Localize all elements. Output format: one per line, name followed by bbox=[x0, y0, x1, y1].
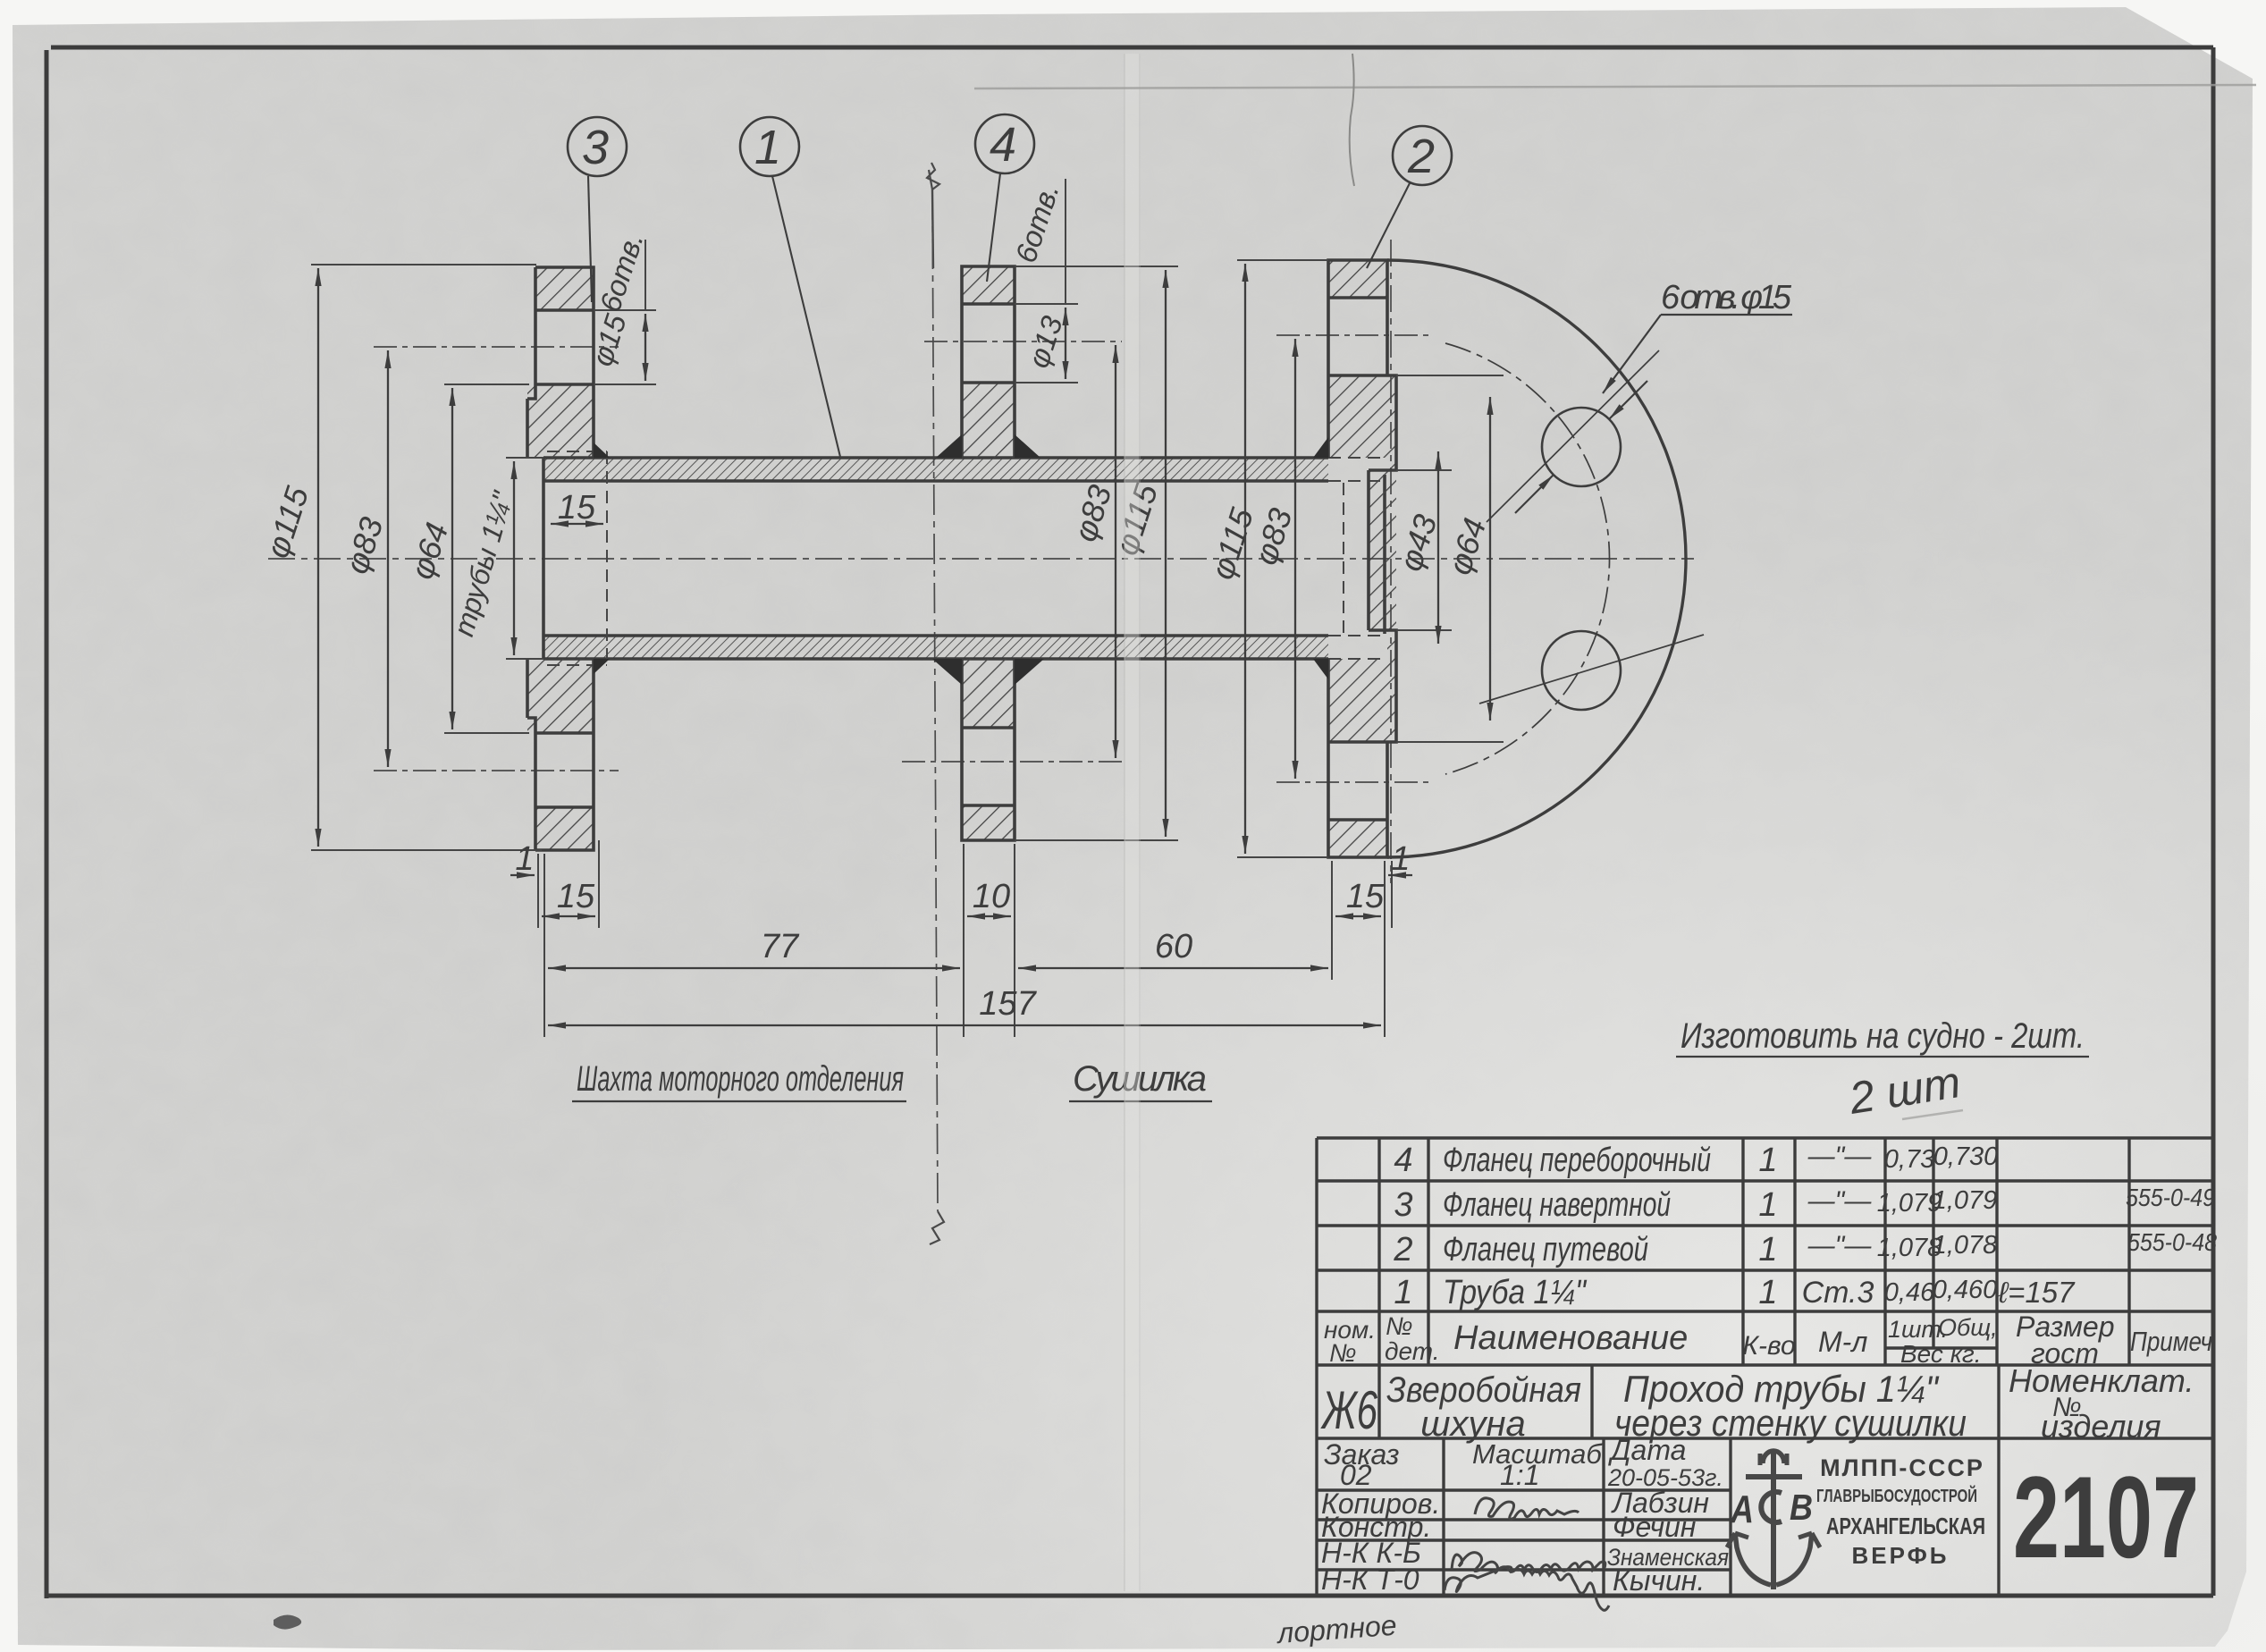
svg-text:1: 1 bbox=[515, 840, 534, 878]
svg-text:3: 3 bbox=[582, 121, 609, 174]
svg-text:6 отв. φ15: 6 отв. φ15 bbox=[1661, 279, 1792, 316]
svg-text:дет.: дет. bbox=[1385, 1337, 1440, 1365]
svg-text:изделия: изделия bbox=[2041, 1408, 2161, 1445]
svg-text:1,079: 1,079 bbox=[1933, 1186, 1998, 1215]
svg-text:—"—: —"— bbox=[1807, 1186, 1873, 1216]
svg-text:К-во: К-во bbox=[1742, 1331, 1795, 1361]
svg-text:Н-К Т-0: Н-К Т-0 bbox=[1321, 1563, 1419, 1596]
svg-text:Наименование: Наименование bbox=[1453, 1319, 1688, 1357]
svg-text:Вес кг.: Вес кг. bbox=[1900, 1340, 1982, 1368]
svg-text:Дата: Дата bbox=[1608, 1434, 1686, 1466]
svg-text:—"—: —"— bbox=[1807, 1142, 1873, 1171]
svg-text:0,73: 0,73 bbox=[1884, 1145, 1934, 1174]
svg-text:1: 1 bbox=[1758, 1274, 1777, 1311]
svg-text:1: 1 bbox=[1758, 1142, 1777, 1179]
svg-text:3: 3 bbox=[1394, 1186, 1412, 1224]
svg-text:Фланец навертной: Фланец навертной bbox=[1443, 1186, 1671, 1224]
svg-text:АРХАНГЕЛЬСКАЯ: АРХАНГЕЛЬСКАЯ bbox=[1826, 1513, 1985, 1539]
svg-text:ℓ=157: ℓ=157 bbox=[1998, 1276, 2076, 1309]
svg-text:4: 4 bbox=[990, 118, 1016, 172]
svg-text:Шахта моторного отделения: Шахта моторного отделения bbox=[577, 1059, 904, 1099]
svg-text:Ж6: Ж6 bbox=[1320, 1380, 1378, 1440]
svg-text:1: 1 bbox=[1391, 840, 1410, 878]
svg-text:157: 157 bbox=[979, 985, 1037, 1023]
svg-text:1: 1 bbox=[1758, 1186, 1777, 1224]
svg-text:Фланец переборочный: Фланец переборочный bbox=[1443, 1142, 1711, 1179]
svg-text:0,730: 0,730 bbox=[1933, 1142, 1999, 1171]
svg-text:Ст.3: Ст.3 bbox=[1802, 1276, 1874, 1310]
svg-text:Труба 1¼": Труба 1¼" bbox=[1443, 1274, 1587, 1311]
svg-text:Номенклат.: Номенклат. bbox=[2009, 1362, 2194, 1399]
svg-text:ВЕРФЬ: ВЕРФЬ bbox=[1852, 1542, 1950, 1569]
svg-text:А: А bbox=[1730, 1488, 1754, 1531]
svg-text:Примеч: Примеч bbox=[2130, 1326, 2212, 1357]
svg-text:Фланец путевой: Фланец путевой bbox=[1443, 1231, 1648, 1268]
svg-text:1: 1 bbox=[754, 121, 781, 174]
svg-text:77: 77 bbox=[761, 928, 800, 965]
svg-text:Изготовить на судно - 2шт.: Изготовить на судно - 2шт. bbox=[1681, 1016, 2085, 1056]
svg-text:555-0-48: 555-0-48 bbox=[2127, 1228, 2217, 1256]
svg-text:1:1: 1:1 bbox=[1500, 1459, 1539, 1491]
svg-text:0,46: 0,46 bbox=[1884, 1278, 1935, 1307]
svg-text:2: 2 bbox=[1393, 1231, 1412, 1268]
svg-text:№: № bbox=[1386, 1312, 1412, 1340]
svg-text:1,078: 1,078 bbox=[1933, 1231, 1998, 1260]
svg-text:4: 4 bbox=[1394, 1142, 1412, 1179]
svg-text:Общ,: Общ, bbox=[1938, 1314, 1998, 1341]
svg-text:02: 02 bbox=[1340, 1459, 1372, 1491]
svg-text:2107: 2107 bbox=[2013, 1452, 2199, 1582]
svg-text:1: 1 bbox=[1758, 1231, 1777, 1268]
svg-text:В: В bbox=[1790, 1487, 1813, 1528]
svg-text:М-л: М-л bbox=[1818, 1326, 1867, 1358]
svg-text:Кычин.: Кычин. bbox=[1613, 1564, 1705, 1597]
svg-text:ГЛАВРЫБОСУДОСТРОЙ: ГЛАВРЫБОСУДОСТРОЙ bbox=[1816, 1485, 1977, 1506]
svg-text:555-0-49: 555-0-49 bbox=[2126, 1184, 2215, 1211]
svg-text:1: 1 bbox=[1394, 1274, 1412, 1311]
svg-text:15: 15 bbox=[558, 489, 596, 527]
svg-text:2: 2 bbox=[1407, 130, 1435, 183]
svg-text:10: 10 bbox=[973, 878, 1010, 915]
svg-text:15: 15 bbox=[557, 878, 595, 915]
svg-text:0,460: 0,460 bbox=[1933, 1276, 1998, 1304]
svg-text:—"—: —"— bbox=[1807, 1231, 1873, 1260]
svg-text:Фечин: Фечин bbox=[1613, 1511, 1696, 1543]
svg-text:№: № bbox=[1329, 1339, 1356, 1367]
svg-text:15: 15 bbox=[1346, 878, 1385, 915]
svg-text:60: 60 bbox=[1155, 928, 1192, 965]
svg-text:МЛПП-СССР: МЛПП-СССР bbox=[1820, 1454, 1984, 1481]
